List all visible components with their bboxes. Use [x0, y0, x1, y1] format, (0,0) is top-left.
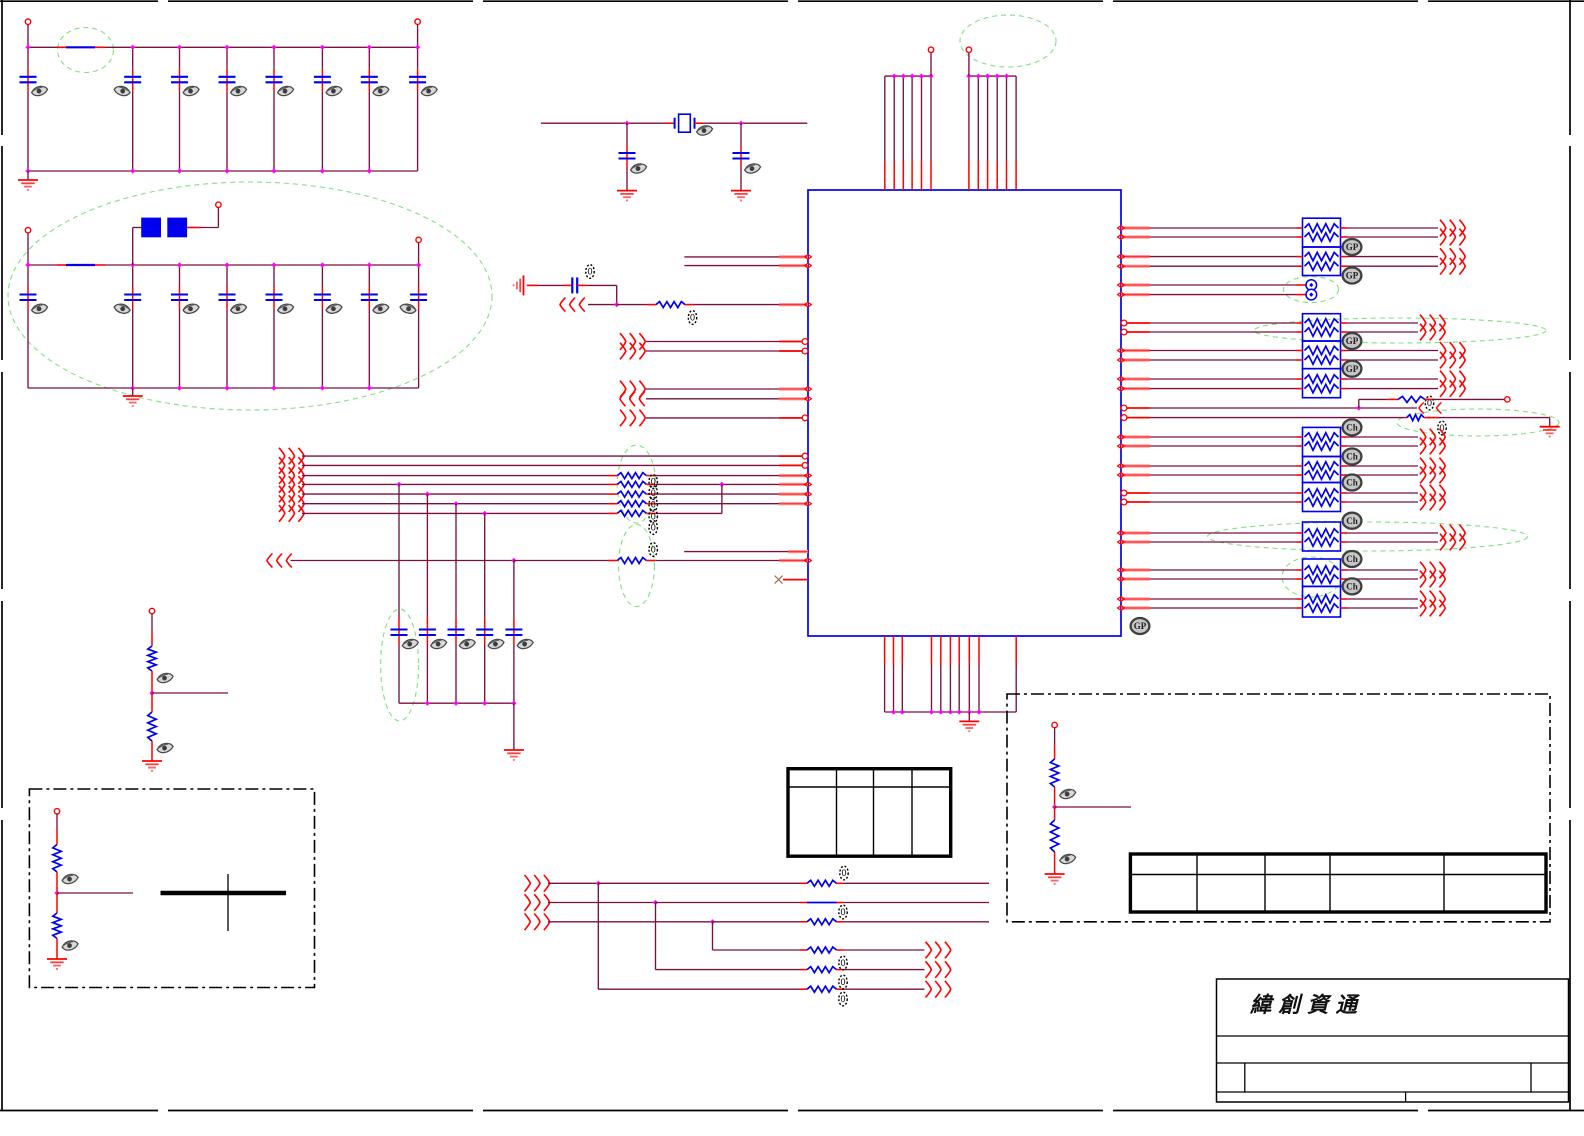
svg-text:0: 0: [840, 907, 845, 917]
svg-text:0: 0: [841, 868, 846, 878]
svg-text:0: 0: [587, 267, 592, 277]
svg-text:GP: GP: [1346, 242, 1359, 252]
svg-text:Ch: Ch: [1346, 516, 1358, 526]
svg-text:Ch: Ch: [1346, 423, 1358, 433]
svg-text:0: 0: [651, 488, 656, 498]
svg-text:0: 0: [651, 511, 656, 521]
svg-text:Ch: Ch: [1346, 452, 1358, 462]
svg-text:GP: GP: [1346, 271, 1359, 281]
svg-text:0: 0: [690, 313, 695, 323]
svg-text:0: 0: [651, 477, 656, 487]
svg-text:0: 0: [840, 977, 845, 987]
svg-text:Ch: Ch: [1346, 554, 1358, 564]
svg-text:緯創資通: 緯創資通: [1249, 993, 1364, 1017]
svg-text:Ch: Ch: [1346, 478, 1358, 488]
svg-text:0: 0: [651, 545, 656, 555]
svg-text:0: 0: [651, 500, 656, 510]
svg-text:0: 0: [840, 958, 845, 968]
svg-text:GP: GP: [1346, 336, 1359, 346]
svg-text:0: 0: [651, 523, 656, 533]
svg-text:GP: GP: [1346, 364, 1359, 374]
svg-text:Ch: Ch: [1346, 582, 1358, 592]
svg-text:0: 0: [840, 994, 845, 1004]
svg-text:GP: GP: [1134, 621, 1147, 631]
